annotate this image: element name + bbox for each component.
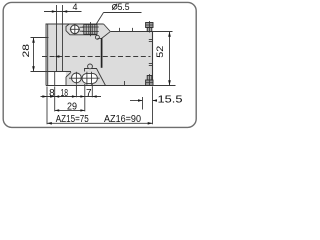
svg-text:AZ16=90: AZ16=90 bbox=[104, 114, 141, 125]
svg-text:AZ15=75: AZ15=75 bbox=[56, 114, 89, 125]
foot left hole bbox=[69, 72, 83, 85]
right edge bbox=[152, 32, 154, 86]
svg-text:18: 18 bbox=[60, 88, 68, 99]
svg-text:8: 8 bbox=[49, 88, 55, 99]
hidden dashes right bbox=[149, 40, 152, 66]
body fill bbox=[46, 24, 153, 86]
foot bbox=[31, 69, 106, 86]
dim 4 bbox=[44, 11, 82, 13]
svg-text:7: 7 bbox=[86, 88, 92, 99]
notch white bbox=[48, 72, 66, 85]
inner diagonal to vertical bbox=[102, 32, 111, 39]
top right screw bbox=[146, 21, 153, 33]
dim 28 bbox=[31, 38, 49, 72]
dim AZ bbox=[47, 122, 153, 124]
dim row 8 18 7 bbox=[41, 96, 102, 98]
svg-text:52: 52 bbox=[155, 46, 165, 58]
hatched block bbox=[82, 22, 99, 36]
vertical line below head bbox=[101, 38, 103, 68]
small circle on foot bbox=[88, 64, 93, 69]
svg-text:28: 28 bbox=[21, 44, 31, 58]
slot lines bbox=[57, 5, 63, 72]
top edge bbox=[46, 23, 104, 25]
dim 15.5 bbox=[130, 100, 157, 102]
head detail bbox=[66, 24, 97, 35]
left edge double bbox=[45, 24, 47, 86]
body top right bbox=[110, 31, 152, 33]
svg-text:29: 29 bbox=[67, 101, 77, 112]
svg-text:15.5: 15.5 bbox=[158, 94, 183, 106]
svg-text:5.5: 5.5 bbox=[118, 2, 130, 12]
tick marks bbox=[120, 28, 133, 86]
bottom edge bbox=[46, 85, 153, 87]
small circle under head bbox=[95, 35, 99, 39]
centerline dashed bbox=[42, 56, 151, 58]
dim 29 bbox=[55, 109, 85, 111]
svg-text:4: 4 bbox=[72, 2, 77, 12]
bottom right screw bbox=[146, 74, 153, 86]
foot slot hole bbox=[80, 72, 100, 85]
bottom extension lines bbox=[47, 84, 153, 124]
head right chamfer bbox=[104, 24, 111, 32]
centerline arrow bbox=[55, 55, 60, 58]
body outline bbox=[46, 24, 153, 86]
dia 5.5 label bbox=[112, 4, 117, 10]
dim 52 bbox=[153, 32, 176, 86]
